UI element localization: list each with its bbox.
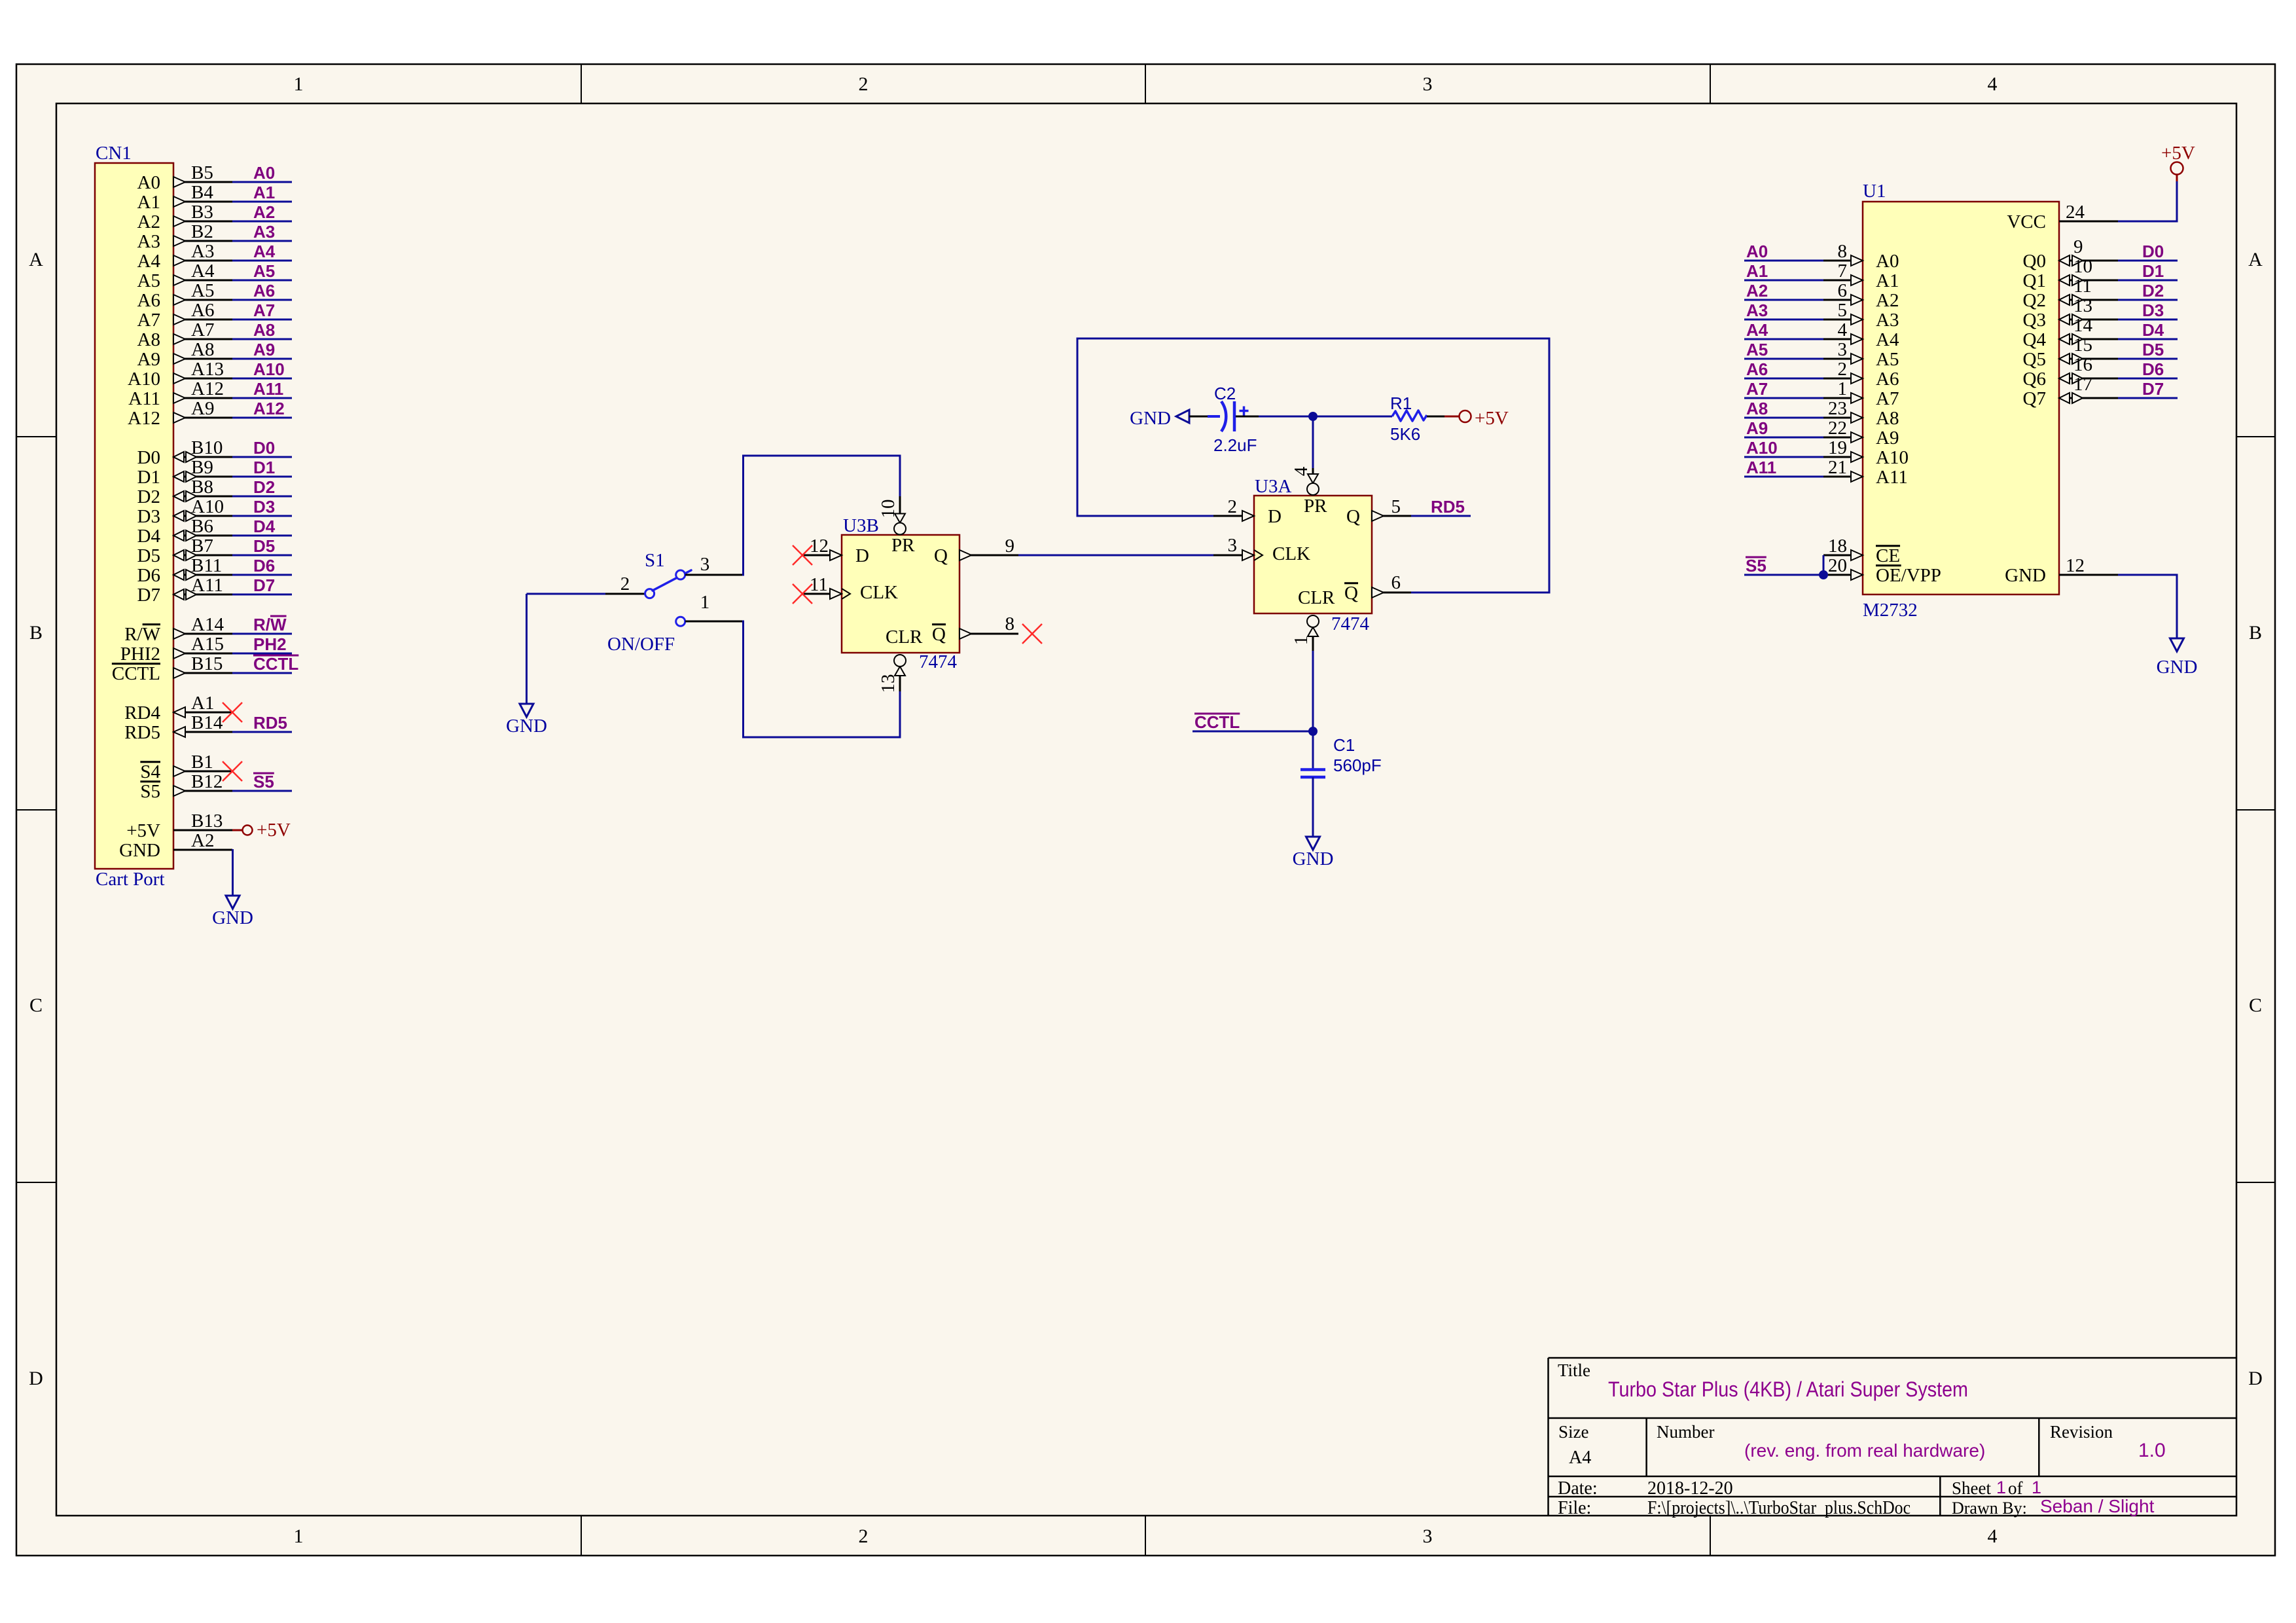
svg-text:21: 21 xyxy=(1828,457,1847,478)
svg-text:S5: S5 xyxy=(140,781,160,802)
svg-text:2: 2 xyxy=(1838,359,1848,380)
svg-text:A6: A6 xyxy=(191,300,214,321)
EPROM U1 body xyxy=(1863,202,2059,594)
svg-text:A6: A6 xyxy=(253,281,275,301)
wire net A5 xyxy=(232,280,292,282)
svg-text:R1: R1 xyxy=(1390,393,1412,413)
svg-text:Q2: Q2 xyxy=(2023,290,2046,311)
U1 pin 7 A1 xyxy=(1744,280,1823,282)
svg-text:A0: A0 xyxy=(1746,242,1768,261)
svg-text:C1: C1 xyxy=(1333,735,1355,755)
svg-text:C: C xyxy=(29,994,43,1016)
svg-text:D2: D2 xyxy=(253,477,275,497)
svg-text:S5: S5 xyxy=(1746,556,1767,575)
svg-text:Q3: Q3 xyxy=(2023,310,2046,331)
svg-text:A4: A4 xyxy=(1746,320,1768,340)
U1 pin 4 A4 xyxy=(1744,338,1823,340)
svg-text:A11: A11 xyxy=(253,379,283,399)
svg-text:GND: GND xyxy=(2005,565,2046,586)
svg-text:A12: A12 xyxy=(253,399,285,418)
svg-text:A8: A8 xyxy=(1746,399,1768,418)
U1 pin 20 OE/VPP xyxy=(1823,574,1863,576)
svg-text:1: 1 xyxy=(2032,1478,2041,1497)
svg-text:2018-12-20: 2018-12-20 xyxy=(1647,1478,1733,1499)
svg-text:5: 5 xyxy=(1838,300,1848,321)
svg-text:D5: D5 xyxy=(137,545,160,566)
svg-text:D3: D3 xyxy=(2142,301,2164,320)
svg-text:D0: D0 xyxy=(137,447,160,468)
svg-text:A7: A7 xyxy=(1746,379,1768,399)
svg-text:A4: A4 xyxy=(137,251,161,272)
svg-text:A9: A9 xyxy=(1746,418,1768,438)
U1 pin 23 A8 xyxy=(1744,417,1823,419)
svg-text:D7: D7 xyxy=(2142,379,2164,399)
svg-text:PH2: PH2 xyxy=(253,634,287,654)
svg-text:C: C xyxy=(2249,994,2262,1016)
svg-text:A: A xyxy=(29,249,43,270)
svg-text:1: 1 xyxy=(294,1525,304,1547)
svg-text:RD5: RD5 xyxy=(1431,497,1465,517)
U3A pin 6 Qbar xyxy=(1372,592,1411,594)
svg-text:Q0: Q0 xyxy=(2023,251,2046,272)
svg-text:9: 9 xyxy=(1005,536,1015,556)
svg-text:D4: D4 xyxy=(253,517,276,536)
svg-text:A4: A4 xyxy=(1876,329,1899,350)
svg-text:A11: A11 xyxy=(191,575,223,596)
svg-text:D: D xyxy=(855,545,869,566)
svg-text:Q6: Q6 xyxy=(2023,369,2046,390)
svg-text:A8: A8 xyxy=(253,320,275,340)
svg-text:5: 5 xyxy=(1391,496,1401,517)
U1 pin 12 GND xyxy=(2059,574,2118,576)
svg-text:A5: A5 xyxy=(1746,340,1768,359)
svg-text:CLK: CLK xyxy=(1272,543,1310,564)
svg-text:A11: A11 xyxy=(128,388,160,409)
switch S1 pin 2 xyxy=(605,593,645,595)
svg-text:A9: A9 xyxy=(191,398,214,419)
svg-text:1: 1 xyxy=(294,73,304,95)
wire S1 pin1 to U3B CLR xyxy=(742,621,900,737)
svg-text:A1: A1 xyxy=(1876,270,1899,291)
svg-text:A3: A3 xyxy=(191,241,214,262)
wire R1 to +5V xyxy=(1427,416,1444,418)
wire GND from CN1 pin A2 xyxy=(232,849,234,851)
svg-text:D5: D5 xyxy=(253,536,275,556)
svg-text:Q7: Q7 xyxy=(2023,388,2046,409)
wire net D7 (U1) xyxy=(2118,397,2178,399)
svg-text:A3: A3 xyxy=(253,222,275,242)
svg-text:RD5: RD5 xyxy=(124,722,160,743)
svg-text:D: D xyxy=(2248,1368,2263,1389)
wire net D4 (U1) xyxy=(2118,338,2178,340)
U3A pin 3 CLK xyxy=(1213,555,1254,556)
svg-text:D4: D4 xyxy=(137,526,161,547)
svg-text:6: 6 xyxy=(1391,572,1401,593)
svg-text:B11: B11 xyxy=(191,555,222,576)
svg-text:S4: S4 xyxy=(140,761,160,782)
svg-text:16: 16 xyxy=(2073,354,2092,375)
svg-text:D0: D0 xyxy=(2142,242,2164,261)
U1 pin 16 Q6 xyxy=(2059,378,2118,380)
svg-text:D2: D2 xyxy=(2142,281,2164,301)
wire net CCTL xyxy=(1193,731,1313,733)
svg-text:A6: A6 xyxy=(137,290,160,311)
svg-text:B2: B2 xyxy=(191,221,213,242)
flip-flop U3A body xyxy=(1254,496,1372,613)
wire C1 to ground xyxy=(1312,777,1314,837)
svg-text:GND: GND xyxy=(1293,848,1334,869)
svg-text:18: 18 xyxy=(1828,536,1847,556)
svg-text:VCC: VCC xyxy=(2007,211,2046,232)
U3A pin 4 PR xyxy=(1312,468,1314,474)
svg-text:A6: A6 xyxy=(1876,369,1899,390)
svg-text:D1: D1 xyxy=(2142,261,2164,281)
svg-text:9: 9 xyxy=(2073,236,2083,257)
svg-text:4: 4 xyxy=(1291,466,1312,476)
wire net S5 xyxy=(232,790,292,792)
svg-text:Seban / Slight: Seban / Slight xyxy=(2040,1496,2155,1516)
power port +5V at CN1 xyxy=(232,830,242,831)
U1 pin 8 A0 xyxy=(1744,260,1823,262)
wire net D5 xyxy=(232,555,292,556)
svg-text:13: 13 xyxy=(878,674,899,693)
svg-text:4: 4 xyxy=(1988,1525,1998,1547)
wire net A4 xyxy=(232,260,292,262)
svg-text:A2: A2 xyxy=(137,211,160,232)
svg-text:12: 12 xyxy=(2066,555,2085,576)
svg-text:3: 3 xyxy=(1838,339,1848,360)
svg-text:A13: A13 xyxy=(191,359,224,380)
U1 pin 5 A3 xyxy=(1744,319,1823,321)
svg-text:A3: A3 xyxy=(1746,301,1768,320)
svg-text:23: 23 xyxy=(1828,398,1847,419)
wire net CCTL xyxy=(232,672,292,674)
svg-text:Revision: Revision xyxy=(2050,1422,2113,1442)
svg-text:+5V: +5V xyxy=(2161,143,2195,164)
junction node at CCTL/C1 xyxy=(1308,727,1318,736)
wire net D5 (U1) xyxy=(2118,358,2178,360)
svg-text:A11: A11 xyxy=(1746,458,1776,477)
U1 pin 10 Q1 xyxy=(2059,280,2118,282)
svg-text:A1: A1 xyxy=(253,183,275,202)
wire net PHI2 xyxy=(232,653,292,655)
svg-text:A10: A10 xyxy=(191,496,224,517)
wire net A8 xyxy=(232,338,292,340)
wire net A1 xyxy=(232,201,292,203)
svg-text:1: 1 xyxy=(700,592,710,613)
U1 pin 22 A9 xyxy=(1744,437,1823,439)
svg-text:GND: GND xyxy=(1130,408,1171,429)
wire GND to C2 xyxy=(1189,416,1208,418)
svg-text:D: D xyxy=(1268,506,1282,527)
wire C2 to junction xyxy=(1236,416,1259,418)
svg-text:D6: D6 xyxy=(137,565,160,586)
svg-text:A2: A2 xyxy=(1746,281,1768,301)
svg-text:GND: GND xyxy=(506,716,547,737)
wire Q to net RD5 xyxy=(1411,515,1471,517)
svg-text:3: 3 xyxy=(1423,73,1433,95)
svg-text:D6: D6 xyxy=(2142,359,2164,379)
junction node at C2/R1/PR xyxy=(1308,412,1318,421)
wire net A11 xyxy=(232,397,292,399)
svg-text:A4: A4 xyxy=(253,242,276,261)
U1 pin 3 A5 xyxy=(1744,358,1823,360)
svg-text:B15: B15 xyxy=(191,653,223,674)
wire net D3 (U1) xyxy=(2118,319,2178,321)
ground symbol below CN1 xyxy=(226,896,240,909)
wire VCC to +5V xyxy=(2118,181,2177,221)
U1 pin 9 Q0 xyxy=(2059,260,2118,262)
svg-text:D3: D3 xyxy=(253,497,275,517)
svg-text:A2: A2 xyxy=(253,202,275,222)
svg-text:(rev. eng. from real hardware): (rev. eng. from real hardware) xyxy=(1744,1440,1985,1461)
svg-text:3: 3 xyxy=(1228,535,1238,556)
svg-text:S1: S1 xyxy=(645,550,665,571)
svg-text:D5: D5 xyxy=(2142,340,2164,359)
svg-text:Q: Q xyxy=(934,545,948,566)
power port +5V above U1 xyxy=(2176,175,2178,181)
wire net D1 xyxy=(232,476,292,478)
U1 pin 19 A10 xyxy=(1744,456,1823,458)
svg-text:B13: B13 xyxy=(191,811,223,831)
wire GND from U1 xyxy=(2118,575,2177,638)
svg-text:F:\[projects]\..\TurboStar_plu: F:\[projects]\..\TurboStar_plus.SchDoc xyxy=(1647,1498,1910,1518)
svg-text:CE: CE xyxy=(1876,545,1900,566)
svg-text:A: A xyxy=(2248,249,2263,270)
svg-text:14: 14 xyxy=(2073,315,2093,336)
svg-text:D7: D7 xyxy=(253,575,275,595)
svg-text:2: 2 xyxy=(620,574,630,594)
wire net S5 to U1 xyxy=(1744,574,1823,576)
svg-text:Drawn By:: Drawn By: xyxy=(1952,1499,2027,1518)
U1 pin 18 CE xyxy=(1823,555,1863,556)
svg-text:6: 6 xyxy=(1838,280,1848,301)
svg-text:OE/VPP: OE/VPP xyxy=(1876,565,1941,586)
power port +5V right of R1 xyxy=(1460,410,1471,422)
svg-text:Date:: Date: xyxy=(1558,1478,1598,1499)
wire net D4 xyxy=(232,535,292,537)
U3B pin 12 D xyxy=(802,555,842,556)
svg-text:D3: D3 xyxy=(137,506,160,527)
svg-text:A8: A8 xyxy=(191,339,214,360)
wire net D6 xyxy=(232,574,292,576)
svg-text:ON/OFF: ON/OFF xyxy=(607,634,675,655)
svg-text:CCTL: CCTL xyxy=(1194,712,1240,732)
svg-text:A5: A5 xyxy=(191,280,214,301)
svg-text:A0: A0 xyxy=(1876,251,1899,272)
svg-text:of: of xyxy=(2008,1478,2023,1498)
svg-text:R/W: R/W xyxy=(253,615,287,634)
svg-text:A6: A6 xyxy=(1746,359,1768,379)
svg-text:M2732: M2732 xyxy=(1863,600,1918,621)
svg-text:CLR: CLR xyxy=(1298,587,1335,608)
svg-text:+5V: +5V xyxy=(126,820,160,841)
svg-text:Size: Size xyxy=(1558,1422,1589,1442)
wire net A2 xyxy=(232,221,292,223)
svg-text:A5: A5 xyxy=(1876,349,1899,370)
wire junction to C1 xyxy=(1312,731,1314,769)
svg-text:GND: GND xyxy=(212,907,253,928)
wire net A3 xyxy=(232,240,292,242)
ground symbol below C1 xyxy=(1306,837,1320,850)
svg-text:A8: A8 xyxy=(1876,408,1899,429)
wire junction to R1 xyxy=(1313,416,1392,418)
svg-text:PR: PR xyxy=(891,535,915,556)
svg-text:Q: Q xyxy=(1344,583,1358,604)
svg-text:PR: PR xyxy=(1304,496,1327,517)
svg-text:CCTL: CCTL xyxy=(253,654,298,674)
feedback wire Qbar to D xyxy=(1077,338,1549,593)
svg-text:+5V: +5V xyxy=(1475,408,1509,429)
svg-text:15: 15 xyxy=(2073,335,2092,356)
svg-text:Turbo Star Plus (4KB) / Atari: Turbo Star Plus (4KB) / Atari Super Syst… xyxy=(1608,1377,1968,1401)
svg-text:10: 10 xyxy=(878,500,899,519)
svg-text:C2: C2 xyxy=(1214,384,1236,403)
svg-text:A4: A4 xyxy=(1569,1448,1591,1468)
svg-text:GND: GND xyxy=(119,840,160,861)
svg-text:7474: 7474 xyxy=(919,651,958,672)
svg-text:A10: A10 xyxy=(253,359,285,379)
svg-text:CN1: CN1 xyxy=(96,143,132,164)
wire net A12 xyxy=(232,417,292,419)
U1 pin 21 A11 xyxy=(1744,476,1823,478)
wire net D2 (U1) xyxy=(2118,299,2178,301)
svg-text:8: 8 xyxy=(1838,241,1848,262)
svg-text:Q5: Q5 xyxy=(2023,349,2046,370)
svg-text:R/W: R/W xyxy=(124,624,160,645)
wire net D2 xyxy=(232,496,292,498)
svg-text:13: 13 xyxy=(2073,295,2092,316)
flip-flop U3B body xyxy=(842,535,960,653)
switch S1 pin 1 xyxy=(685,621,742,623)
wire net R/W xyxy=(232,633,292,635)
svg-text:2: 2 xyxy=(1228,496,1238,517)
wire net RD5 xyxy=(232,731,292,733)
switch S1 pole and lever xyxy=(645,589,655,598)
svg-text:B3: B3 xyxy=(191,202,213,223)
svg-text:B: B xyxy=(29,622,43,644)
svg-text:11: 11 xyxy=(2073,276,2092,297)
U3B pin 11 CLK xyxy=(802,593,842,595)
wire net A0 xyxy=(232,181,292,183)
U1 pin 2 A6 xyxy=(1744,378,1823,380)
svg-text:D2: D2 xyxy=(137,486,160,507)
switch S1 pin 3 xyxy=(685,574,742,576)
svg-text:A8: A8 xyxy=(137,329,160,350)
wire net A7 xyxy=(232,319,292,321)
svg-text:A12: A12 xyxy=(128,408,160,429)
U3B pin 10 PR xyxy=(899,496,901,514)
wire net D0 xyxy=(232,456,292,458)
svg-text:A10: A10 xyxy=(128,369,160,390)
svg-text:D4: D4 xyxy=(2142,320,2164,340)
svg-text:U3B: U3B xyxy=(843,515,879,536)
svg-text:A1: A1 xyxy=(191,693,214,714)
svg-text:A2: A2 xyxy=(191,830,214,851)
svg-text:2: 2 xyxy=(859,73,869,95)
svg-text:5K6: 5K6 xyxy=(1390,424,1420,444)
svg-text:22: 22 xyxy=(1828,418,1847,439)
svg-text:A3: A3 xyxy=(137,231,160,252)
border row ticks xyxy=(16,436,56,437)
svg-text:B6: B6 xyxy=(191,516,213,537)
svg-text:24: 24 xyxy=(2066,202,2085,223)
svg-text:D: D xyxy=(29,1368,43,1389)
svg-text:U3A: U3A xyxy=(1255,476,1291,497)
svg-text:A9: A9 xyxy=(253,340,275,359)
svg-text:B10: B10 xyxy=(191,437,223,458)
svg-text:A14: A14 xyxy=(191,614,224,635)
svg-text:D1: D1 xyxy=(253,458,275,477)
ground symbol left of S1 xyxy=(526,594,528,704)
svg-text:3: 3 xyxy=(1423,1525,1433,1547)
svg-text:RD5: RD5 xyxy=(253,713,287,733)
svg-text:A15: A15 xyxy=(191,634,224,655)
svg-text:Q1: Q1 xyxy=(2023,270,2046,291)
svg-text:1: 1 xyxy=(1291,636,1312,646)
svg-text:A7: A7 xyxy=(191,319,214,340)
svg-text:U1: U1 xyxy=(1863,181,1886,202)
U1 pin 13 Q3 xyxy=(2059,319,2118,321)
svg-text:File:: File: xyxy=(1558,1498,1591,1518)
svg-text:A3: A3 xyxy=(1876,310,1899,331)
connector CN1 body xyxy=(95,163,173,869)
svg-text:A7: A7 xyxy=(137,310,160,331)
wire net A6 xyxy=(232,299,292,301)
U3B pin 8 Qbar xyxy=(960,633,1018,635)
capacitor C2 (polarized) xyxy=(1208,415,1220,418)
U3A pin 5 Q xyxy=(1372,515,1411,517)
svg-text:A5: A5 xyxy=(253,261,275,281)
svg-text:1: 1 xyxy=(1838,378,1848,399)
svg-text:B: B xyxy=(2249,622,2262,644)
U1 pin 14 Q4 xyxy=(2059,338,2118,340)
svg-text:Q4: Q4 xyxy=(2023,329,2047,350)
U3A pin 1 CLR xyxy=(1312,636,1314,651)
ground symbol below U1 xyxy=(2170,638,2184,651)
U3A pin 2 D xyxy=(1213,515,1254,517)
svg-text:S5: S5 xyxy=(253,772,274,792)
svg-text:PHI2: PHI2 xyxy=(120,644,160,665)
svg-text:CLR: CLR xyxy=(886,627,923,647)
resistor R1 xyxy=(1392,410,1427,421)
svg-text:B1: B1 xyxy=(191,752,213,773)
svg-text:10: 10 xyxy=(2073,256,2092,277)
svg-text:A7: A7 xyxy=(253,301,275,320)
svg-text:D6: D6 xyxy=(253,556,275,575)
svg-text:D7: D7 xyxy=(137,585,160,606)
title block frame xyxy=(1549,1357,2237,1359)
U3B pin 13 CLR xyxy=(899,676,901,691)
svg-text:1.0: 1.0 xyxy=(2138,1440,2166,1461)
wire net D3 xyxy=(232,515,292,517)
svg-text:+5V: +5V xyxy=(257,820,291,841)
wire net D0 (U1) xyxy=(2118,260,2178,262)
svg-text:3: 3 xyxy=(700,554,710,575)
svg-text:A1: A1 xyxy=(1746,261,1768,281)
U3B pin 9 Q xyxy=(960,555,1018,556)
no-connect X xyxy=(223,702,242,722)
svg-text:A12: A12 xyxy=(191,378,224,399)
U1 pin 17 Q7 xyxy=(2059,397,2118,399)
svg-text:B4: B4 xyxy=(191,182,213,203)
svg-text:Number: Number xyxy=(1657,1422,1714,1442)
svg-text:B12: B12 xyxy=(191,771,223,792)
svg-text:Title: Title xyxy=(1558,1360,1590,1380)
svg-text:GND: GND xyxy=(2157,657,2198,678)
U1 pin 6 A2 xyxy=(1744,299,1823,301)
wire net A9 xyxy=(232,358,292,360)
